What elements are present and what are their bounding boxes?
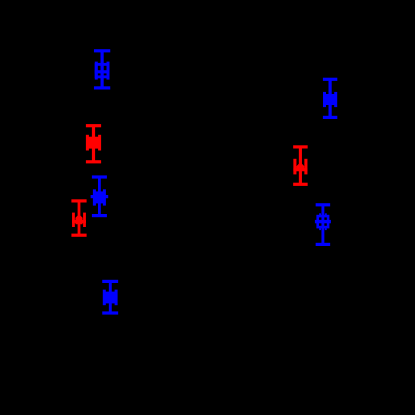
marker: filled square P8 <box>105 292 116 304</box>
x-error right cap P3 <box>98 135 101 151</box>
x-error line P4 <box>293 168 307 171</box>
top cap P6 <box>71 199 86 202</box>
bump bottom-right P7 <box>325 228 327 230</box>
data point P2 (blue, filled square, xy error bars) <box>323 78 337 119</box>
top cap P5 <box>92 175 107 178</box>
wire: vertical y-error line P3 <box>92 126 95 162</box>
bottom cap P6 <box>71 234 86 237</box>
wire: vertical y-error line P7 <box>321 205 324 245</box>
x-error right cap P6 <box>83 213 86 227</box>
x-error left cap P3 <box>86 135 89 151</box>
marker: open square P7 <box>318 216 328 227</box>
bottom cap P8 <box>102 311 118 314</box>
wire: vertical y-error line P5 <box>98 177 101 216</box>
bump bottom-left P7 <box>319 228 321 230</box>
wire: vertical y-error line P1 <box>101 51 104 88</box>
top cap P8 <box>102 280 118 283</box>
bump top-right P7 <box>325 213 327 215</box>
bottom cap P3 <box>86 160 101 163</box>
top cap P7 <box>316 203 331 206</box>
data point P5 (blue, filled square with wide x-error, xy error bars) <box>91 175 109 217</box>
x-error right cap P4 <box>304 159 307 175</box>
top cap P3 <box>86 124 101 127</box>
data point P1 (blue, open square, xy error bars) <box>94 49 110 89</box>
wire: vertical y-error line P4 <box>299 147 302 184</box>
marker: house polygon P6 <box>75 214 82 224</box>
data point P4 (red, small house marker, xy error bars) <box>293 145 308 186</box>
bottom cap P4 <box>293 183 308 186</box>
x-error line P6 <box>72 220 86 223</box>
x-error left cap P6 <box>72 213 75 227</box>
wire: vertical y-error line P8 <box>109 281 112 313</box>
bottom cap P1 <box>94 86 110 89</box>
data point P3 (red, filled square, xy error bars) <box>86 124 101 163</box>
x-error left cap P2 <box>323 92 326 107</box>
x-error right cap P2 <box>334 92 337 107</box>
x-error line P5 <box>91 195 109 198</box>
top cap P4 <box>293 145 308 148</box>
x-error left cap P8 <box>103 290 106 306</box>
x-error left cap P1 <box>95 62 98 80</box>
wire: vertical y-error line P2 <box>329 79 332 117</box>
x-error line P7 <box>315 220 331 223</box>
data point P6 (red, small house marker, xy error bars) <box>71 199 86 237</box>
data point P7 (blue, open square, xy error bars) <box>315 203 331 246</box>
bottom cap P5 <box>92 214 107 217</box>
x-error right cap P5 <box>103 189 106 205</box>
top cap P2 <box>323 78 337 81</box>
wire: vertical y-error line P6 <box>78 201 81 235</box>
x-error right cap P8 <box>115 290 118 306</box>
x-error line P1 <box>95 70 110 73</box>
marker: filled square P2 <box>325 94 336 105</box>
bottom cap P2 <box>323 116 337 119</box>
marker: filled square P5 <box>94 191 105 203</box>
x-error right cap P1 <box>107 62 110 80</box>
top cap P1 <box>94 49 110 52</box>
marker: open square P1 <box>96 64 108 77</box>
marker: house polygon P4 <box>297 162 305 171</box>
x-error left cap P5 <box>93 189 96 205</box>
bottom cap P7 <box>316 243 331 246</box>
marker: filled square P3 <box>88 137 100 149</box>
x-error left cap P4 <box>293 159 296 175</box>
bump top-left P7 <box>319 213 321 215</box>
data point P8 (blue, filled square, xy error bars) <box>102 280 118 315</box>
